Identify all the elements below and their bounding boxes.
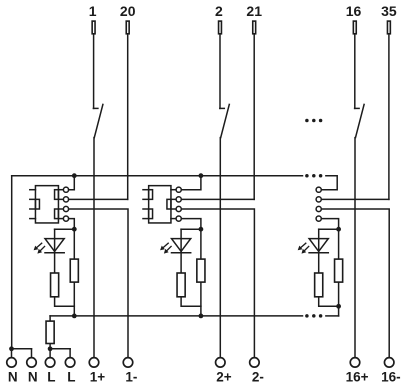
wire terminal 21 down — [253, 35, 255, 200]
svg-text:N: N — [8, 369, 18, 384]
relay K2 contact bar 2 — [149, 209, 153, 219]
wire to terminal L2 — [69, 349, 71, 357]
relay K2 body — [149, 186, 171, 223]
terminal 2+ — [216, 358, 226, 368]
terminal 1 — [92, 21, 95, 34]
svg-text:1-: 1- — [125, 369, 137, 384]
LED D1 cathode bar — [45, 252, 64, 254]
relay K1 pin circle 4 — [63, 216, 68, 221]
LED D2 triangle — [172, 239, 191, 252]
wire rail channel 1 upper — [73, 229, 75, 258]
terminal 16 — [353, 21, 356, 34]
svg-text:16-: 16- — [381, 369, 401, 384]
relay K1 body — [35, 186, 58, 223]
wire pin1 K1 to supply bus — [69, 176, 75, 190]
wire rail channel 1 lower — [73, 283, 75, 316]
relay K2 coil — [167, 199, 171, 209]
svg-text:20: 20 — [120, 3, 136, 19]
relay K2 pin circle 1 — [176, 187, 181, 192]
bottom bus continuation to channel 16 — [326, 315, 339, 317]
wire rail channel 2 lower — [200, 283, 202, 316]
svg-text:2-: 2- — [252, 369, 264, 384]
terminal 21 — [253, 21, 256, 34]
top bus ellipsis — [305, 174, 309, 178]
relay contact switch S2 blade — [221, 104, 230, 137]
wire LED branch top — [319, 228, 339, 230]
relay K2 right pin stubs — [171, 189, 176, 191]
wire pin4 K2 to LED branch — [181, 219, 201, 230]
LED D16 triangle — [309, 239, 328, 252]
wire terminal 20 down — [127, 35, 129, 200]
relay contact switch S2 fixed tick — [220, 107, 225, 109]
svg-text:16: 16 — [346, 3, 362, 19]
wire terminal 16 to switch — [354, 35, 356, 109]
wire pin3 K2 to terminal 2- — [181, 209, 254, 357]
relay K1 coil — [35, 199, 39, 209]
channels ellipsis — [305, 119, 309, 123]
wire R16a to rail — [319, 298, 339, 307]
wire switch 2 to terminal 2+ — [219, 138, 221, 357]
svg-text:L: L — [67, 369, 75, 384]
LED D1 triangle — [45, 239, 64, 252]
terminal 16+ — [350, 358, 360, 368]
wire neutral rail left — [11, 176, 13, 349]
LED D1 wire through — [54, 229, 56, 272]
relay K1 left pins — [30, 189, 36, 191]
wire L bridge — [50, 348, 70, 350]
top bus continuation to channel 16 — [321, 176, 337, 190]
relay K1 right pin stubs — [58, 189, 63, 191]
wire pin4 K1 to LED branch — [69, 219, 75, 230]
relay K2 pin circle 4 — [176, 216, 181, 221]
svg-text:21: 21 — [246, 3, 262, 19]
junction node bottom bus / channel 2 — [199, 314, 204, 319]
LED D16 cathode bar — [309, 252, 328, 254]
wire to terminal N2 — [31, 349, 33, 357]
relay K1 contact bar 2 — [55, 209, 59, 219]
terminal 16- — [384, 358, 394, 368]
terminal 1+ — [89, 358, 99, 368]
LED D1 light arrow 2 — [40, 246, 44, 250]
terminal N — [7, 358, 17, 368]
svg-text:L: L — [47, 369, 55, 384]
relay K2 contact bar 1 — [149, 190, 153, 200]
relay K1 pin circle 2 — [63, 197, 68, 202]
resistor R2b — [197, 259, 205, 282]
resistor R16a — [315, 273, 323, 297]
bottom return bus — [50, 315, 302, 317]
terminal 2- — [250, 358, 260, 368]
relay K2 pin circle 3 — [176, 206, 181, 211]
wire LED branch top — [181, 228, 201, 230]
top supply bus — [12, 175, 303, 177]
LED D2 wire through — [180, 229, 182, 272]
junction node K2 pin4 / LED branch — [199, 227, 204, 232]
wire pin4 K16 to LED branch — [321, 219, 338, 230]
bottom bus ellipsis — [305, 314, 309, 318]
junction node bus/K2 — [199, 173, 204, 178]
resistor R1b — [70, 259, 78, 282]
LED D2 light arrow 1 — [163, 243, 168, 247]
wire R1a to rail — [55, 298, 75, 307]
svg-text:1: 1 — [89, 3, 97, 19]
terminal 20 — [126, 21, 129, 34]
svg-text:16+: 16+ — [346, 369, 369, 384]
svg-text:2: 2 — [215, 3, 223, 19]
LED D16 light arrow 2 — [305, 246, 309, 250]
wire R2a to rail — [181, 298, 201, 307]
wire to terminal L1 — [49, 349, 51, 357]
wire rail channel 16 lower — [338, 283, 340, 316]
wire N bridge — [12, 348, 32, 350]
svg-text:2+: 2+ — [216, 369, 232, 384]
wire to terminal N1 — [11, 349, 13, 357]
terminal N — [27, 358, 37, 368]
relay contact switch S16 blade — [356, 104, 365, 137]
wire rail channel 2 upper — [200, 229, 202, 258]
LED D2 cathode bar — [172, 252, 191, 254]
wire terminal 21 to pin2 K2 — [181, 198, 254, 200]
relay K1 pin circle 3 — [63, 206, 68, 211]
relay K16 pin circle 4 — [316, 216, 321, 221]
relay K1 pin circle 1 — [63, 187, 68, 192]
wire terminal 1 to switch — [93, 35, 95, 109]
wire terminal 35 down — [388, 35, 390, 200]
LED D16 wire through — [318, 229, 320, 272]
terminal L — [65, 358, 75, 368]
wire pin1 K2 to supply bus — [181, 176, 201, 190]
junction node N — [9, 346, 14, 351]
relay contact switch S16 fixed tick — [355, 107, 360, 109]
LED D16 light arrow 1 — [301, 243, 306, 247]
relay K2 pin circle 2 — [176, 197, 181, 202]
relay K16 pin circle 2 — [316, 197, 321, 202]
wire LED branch top — [55, 228, 75, 230]
junction node K1 pin4 / LED branch — [72, 227, 77, 232]
junction node L — [48, 346, 53, 351]
svg-text:35: 35 — [381, 3, 397, 19]
wire terminal 2 to switch — [219, 35, 221, 109]
terminal 35 — [387, 21, 390, 34]
junction node bottom bus / channel 1 — [72, 314, 77, 319]
junction node LED branch / rail channel 16 — [336, 304, 341, 309]
svg-text:N: N — [28, 369, 38, 384]
resistor R2a — [177, 273, 185, 297]
terminal 1- — [123, 358, 133, 368]
relay K1 contact bar 1 — [55, 190, 59, 200]
LED D1 light arrow 1 — [37, 243, 42, 247]
relay K16 pin circle 1 — [316, 187, 321, 192]
wire switch 1 to terminal 1+ — [93, 138, 95, 357]
junction node bus/K1 — [72, 173, 77, 178]
wire pin3 K1 to terminal 1- — [69, 209, 128, 357]
relay K16 pin circle 3 — [316, 206, 321, 211]
junction node K16 pin4 / LED branch — [336, 227, 341, 232]
terminal 2 — [219, 21, 222, 34]
LED D2 light arrow 2 — [167, 246, 171, 250]
terminal L — [45, 358, 55, 368]
relay contact switch S1 blade — [94, 104, 103, 137]
relay contact switch S1 fixed tick — [93, 107, 98, 109]
resistor RL — [46, 321, 54, 343]
resistor R1a — [51, 273, 59, 297]
svg-text:1+: 1+ — [90, 369, 106, 384]
wire terminal 20 to pin2 K1 — [69, 198, 128, 200]
wire bottom bus to resistor RL — [49, 316, 51, 320]
wire pin3 K16 to terminal 16- — [321, 209, 389, 357]
relay K2 left pins — [143, 189, 149, 191]
resistor R16b — [335, 259, 343, 282]
wire rail channel 16 upper — [338, 229, 340, 258]
wire terminal 35 to pin2 K16 — [321, 198, 389, 200]
wire resistor RL to L junction — [49, 344, 51, 349]
wire switch 16 to terminal 16+ — [354, 138, 356, 357]
